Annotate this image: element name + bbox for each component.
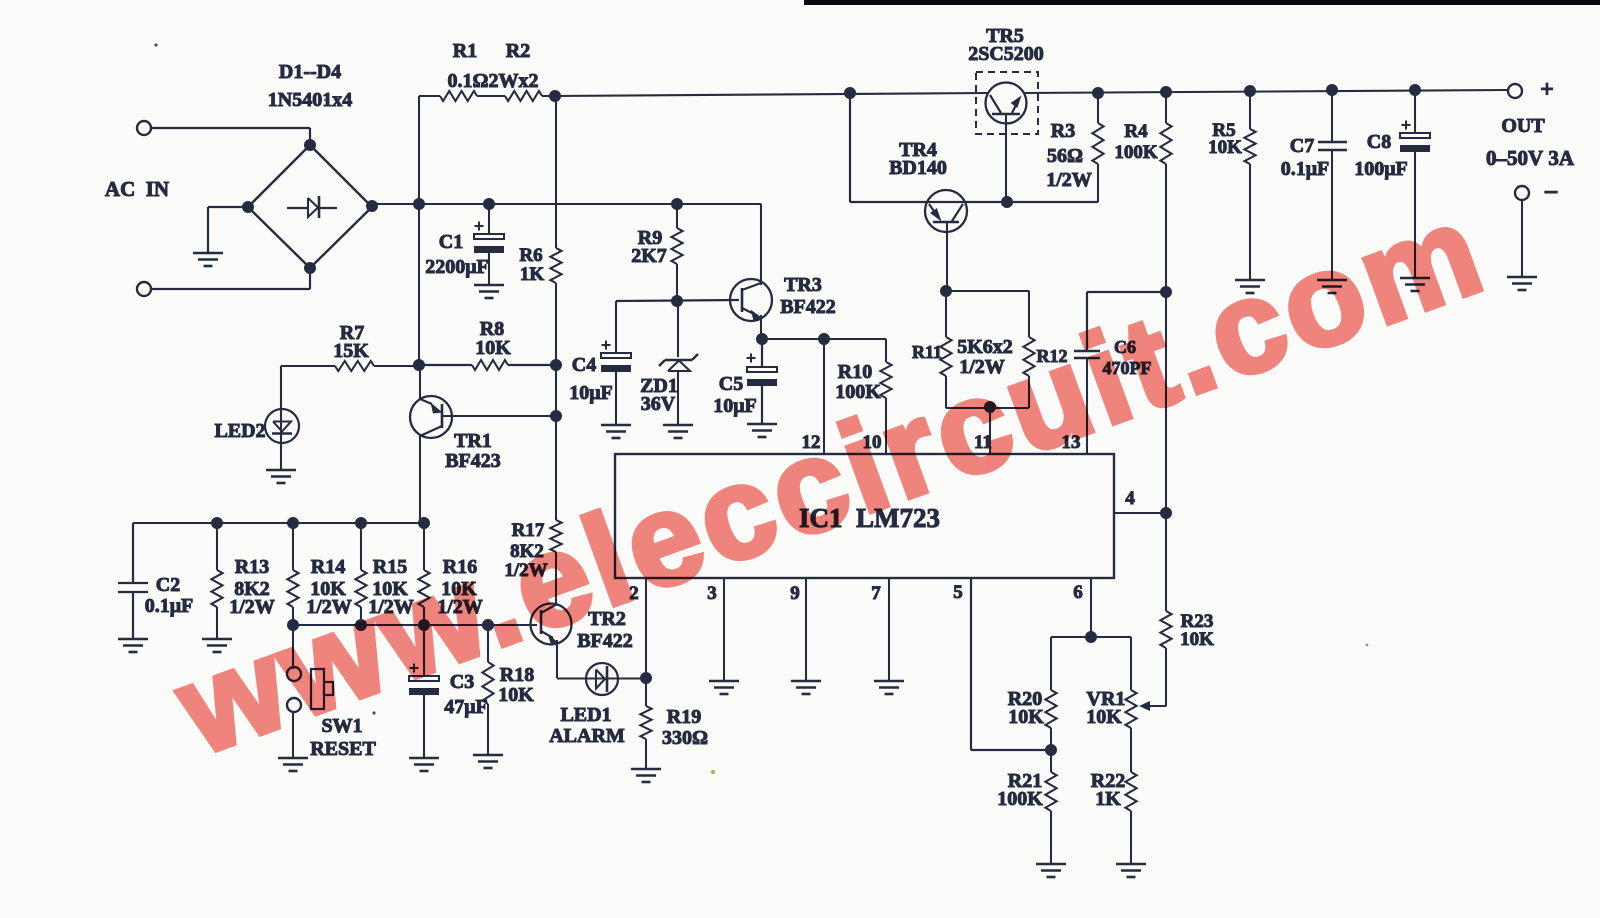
node bridge left <box>242 201 254 213</box>
capacitor C8 <box>1400 90 1430 278</box>
resistor R1 <box>440 91 477 101</box>
wire <box>677 301 679 357</box>
label 0.1ohm 2Wx2 <box>447 70 538 92</box>
resistor R9 <box>671 228 682 264</box>
label TR2 <box>588 608 626 630</box>
label halfW R11 <box>959 356 1005 378</box>
svg-text:7: 7 <box>871 583 881 604</box>
label C3 <box>450 671 474 693</box>
ground <box>601 425 631 438</box>
wire pin 4 <box>1114 512 1166 514</box>
wire <box>151 268 310 289</box>
node rail R4 <box>1160 86 1172 98</box>
node pin4 <box>1160 507 1172 519</box>
label C8 <box>1367 131 1391 153</box>
label VR1 <box>1087 688 1126 710</box>
node TR3 emitter <box>756 333 768 345</box>
node TR5 base junction <box>1001 196 1013 208</box>
switch SW1 <box>287 667 333 712</box>
label pin 11 <box>974 432 992 453</box>
label R10 <box>838 361 872 383</box>
ground <box>474 285 504 298</box>
label halfW R15 <box>368 596 414 618</box>
label 100K R4 <box>1114 142 1158 163</box>
label R13 <box>235 556 269 578</box>
wire <box>615 372 617 425</box>
resistor R16 <box>418 523 429 625</box>
ground <box>1317 280 1347 293</box>
svg-text:C8: C8 <box>1367 131 1391 153</box>
label 2SC5200 <box>968 43 1044 65</box>
svg-text:15K: 15K <box>333 340 369 362</box>
wire <box>281 365 335 367</box>
ground <box>409 758 439 771</box>
wire pin 2 <box>645 578 647 678</box>
label 10K R23 <box>1180 629 1214 650</box>
svg-text:2200μF: 2200μF <box>425 256 489 278</box>
label ZD1 <box>640 375 678 397</box>
label 1N5401x4 <box>268 89 352 111</box>
node rail C8 <box>1409 84 1421 96</box>
node rail C7 <box>1326 84 1338 96</box>
label R23 <box>1181 611 1214 632</box>
ground <box>278 758 308 771</box>
label AC IN <box>105 177 169 201</box>
wire emitter line <box>762 338 886 340</box>
svg-text:1K: 1K <box>520 264 545 285</box>
label 5K6x2 <box>957 336 1013 358</box>
transistor TR1 <box>410 365 452 523</box>
label 15K <box>333 340 369 362</box>
wire vertical left <box>418 96 420 365</box>
svg-text:LED1: LED1 <box>560 704 611 726</box>
op-amp U1 IC1 LM723 box <box>615 454 1114 578</box>
speck <box>1366 644 1369 647</box>
wire rail bridge <box>372 203 761 205</box>
node TR1 base junction <box>550 410 562 422</box>
node pin11 node <box>984 401 996 413</box>
svg-text:BF422: BF422 <box>780 296 836 318</box>
node R2 out <box>549 90 561 102</box>
wire <box>292 625 294 669</box>
label 10K <box>475 337 511 359</box>
label 10K VR1 <box>1086 706 1122 728</box>
label pin 6 <box>1073 582 1083 603</box>
label 10K R20 <box>1008 706 1044 728</box>
VR1 wiper arrow <box>1139 701 1150 711</box>
node bridge right <box>366 200 378 212</box>
node C6 junction <box>1160 286 1172 298</box>
svg-text:R13: R13 <box>235 556 269 578</box>
label pin 4 <box>1125 488 1135 509</box>
svg-text:OUT: OUT <box>1501 115 1545 137</box>
scan artifact bar <box>804 0 1600 5</box>
speck <box>154 43 157 46</box>
label RESET <box>310 738 376 760</box>
wire <box>616 300 739 301</box>
wire pin 11 <box>989 407 991 454</box>
wire <box>477 95 505 97</box>
TR5 dashed outline <box>976 72 1038 134</box>
output terminal minus <box>1515 186 1529 200</box>
label TR4 <box>899 139 937 161</box>
label 10uF C5 <box>713 395 757 417</box>
svg-text:BD140: BD140 <box>889 157 947 179</box>
wire <box>557 677 646 679</box>
svg-text:4: 4 <box>1125 488 1135 509</box>
zener ZD1 <box>659 354 698 371</box>
ground <box>709 681 739 694</box>
svg-text:R11: R11 <box>912 342 942 362</box>
label R11 <box>912 342 942 362</box>
label R8 <box>480 318 504 340</box>
svg-text:10K: 10K <box>1008 706 1044 728</box>
node pin2 node <box>640 672 652 684</box>
node R13 top <box>211 517 223 529</box>
capacitor C3 <box>409 625 439 758</box>
svg-text:R10: R10 <box>838 361 872 383</box>
label 8K2 R17 <box>510 541 544 562</box>
label pin 12 <box>802 432 821 453</box>
label BF422 TR3 <box>780 296 836 318</box>
label pin 2 <box>629 583 639 604</box>
svg-text:+: + <box>1540 77 1554 103</box>
label R15 <box>373 556 407 578</box>
svg-text:100μF: 100μF <box>1354 158 1408 180</box>
svg-text:10K: 10K <box>1086 706 1122 728</box>
node bridge bottom <box>304 262 316 274</box>
label 0.1uF C7 <box>1281 158 1330 180</box>
svg-text:56Ω: 56Ω <box>1047 145 1083 167</box>
svg-text:R14: R14 <box>311 556 345 578</box>
resistor R10 <box>880 339 891 454</box>
label BD140 <box>889 157 947 179</box>
ground <box>193 253 223 266</box>
wire pin 9 <box>805 578 807 681</box>
label 8K2 R13 <box>234 578 270 600</box>
label R5 <box>1212 120 1235 141</box>
speck <box>324 99 327 102</box>
resistor R5 <box>1244 91 1255 280</box>
wire <box>946 290 1029 292</box>
capacitor C6 <box>1074 351 1100 358</box>
capacitor C7 <box>1318 90 1347 280</box>
label 10K R15 <box>372 578 408 600</box>
node R15 bottom <box>355 619 367 631</box>
ground <box>473 755 503 768</box>
resistor R12 <box>1023 291 1034 408</box>
wire sense line <box>293 624 531 626</box>
node R8 out <box>550 359 562 371</box>
svg-text:C5: C5 <box>719 373 743 395</box>
label C2 <box>156 574 180 596</box>
label halfW R17 <box>504 560 547 581</box>
capacitor C4 <box>601 341 631 373</box>
label 10K R18 <box>498 684 534 706</box>
label pin 9 <box>790 583 800 604</box>
wire TR3 emitter <box>760 315 762 339</box>
resistor R18 <box>482 625 493 755</box>
svg-text:TR1: TR1 <box>454 430 492 452</box>
transistor TR4 <box>925 190 967 232</box>
transistor TR2 <box>531 604 572 645</box>
wire <box>280 366 282 408</box>
svg-text:R1: R1 <box>453 40 477 62</box>
ground <box>874 681 904 694</box>
wire <box>1146 705 1166 707</box>
svg-text:C2: C2 <box>156 574 180 596</box>
label 10uF C4 <box>569 382 613 404</box>
svg-text:1/2W: 1/2W <box>1046 169 1092 191</box>
speck <box>372 711 375 714</box>
label 470PF <box>1103 358 1152 378</box>
label halfW R16 <box>437 596 483 618</box>
label IC1 LM723 <box>799 503 940 533</box>
ground <box>1235 280 1265 293</box>
wire <box>151 128 310 145</box>
svg-text:5: 5 <box>953 582 963 603</box>
svg-text:R2: R2 <box>506 40 530 62</box>
node rail R3 <box>1092 87 1104 99</box>
svg-text:10μF: 10μF <box>713 395 757 417</box>
svg-text:2SC5200: 2SC5200 <box>968 43 1044 65</box>
output terminal plus <box>1508 84 1522 98</box>
resistor R4 <box>1160 92 1171 292</box>
label BF422 TR2 <box>577 630 633 652</box>
wire <box>542 95 555 97</box>
ground <box>202 639 232 652</box>
svg-text:R4: R4 <box>1124 121 1148 142</box>
wire <box>761 339 763 424</box>
label LED1 <box>560 704 611 726</box>
node bridge top <box>304 139 316 151</box>
label C5 <box>719 373 743 395</box>
svg-text:C4: C4 <box>572 354 596 376</box>
label 2200uF <box>425 256 489 278</box>
label C7 <box>1290 135 1314 157</box>
transistor TR3 <box>730 279 772 321</box>
resistor R21 <box>1045 750 1056 864</box>
svg-text:10K: 10K <box>475 337 511 359</box>
svg-text:C7: C7 <box>1290 135 1314 157</box>
resistor R17 <box>550 520 561 606</box>
label ALARM <box>549 725 625 747</box>
svg-text:2K7: 2K7 <box>631 245 667 267</box>
label pin 5 <box>953 582 963 603</box>
capacitor C5 <box>747 354 778 387</box>
wire <box>946 407 1029 409</box>
svg-text:LED2: LED2 <box>214 420 265 442</box>
wire <box>1087 292 1166 351</box>
label R19 <box>667 706 701 728</box>
label R1 <box>453 40 477 62</box>
capacitor C2 <box>118 523 148 639</box>
svg-text:6: 6 <box>1073 582 1083 603</box>
svg-text:–: – <box>1544 178 1558 204</box>
label plus <box>1540 77 1554 103</box>
svg-text:0.1μF: 0.1μF <box>145 595 194 617</box>
wire <box>615 301 617 353</box>
ground <box>747 424 777 437</box>
wire TR3 collector <box>760 204 762 285</box>
wire <box>676 204 678 228</box>
label C4 <box>572 354 596 376</box>
wire bracket <box>1051 636 1131 638</box>
ground <box>1507 277 1537 290</box>
label halfW R3 <box>1046 169 1092 191</box>
watermark www.eleccircuit.com <box>162 182 1500 775</box>
resistor R22 <box>1125 772 1136 864</box>
node TR4 base node <box>940 285 952 297</box>
label R17 <box>512 520 545 541</box>
wire pin 12 <box>823 339 825 454</box>
svg-text:10K: 10K <box>1208 137 1242 158</box>
label minus <box>1544 178 1558 204</box>
node R7 junction <box>413 359 425 371</box>
label 10K R14 <box>310 578 346 600</box>
label 100uF C8 <box>1354 158 1408 180</box>
wire <box>1521 200 1523 277</box>
resistor R7 <box>335 361 374 371</box>
resistor R3 <box>1092 93 1103 202</box>
transistor TR5 <box>986 83 1027 124</box>
svg-text:ALARM: ALARM <box>549 725 625 747</box>
AC input terminal top <box>137 121 151 135</box>
label halfW R13 <box>229 596 275 618</box>
resistor R11 <box>940 291 951 408</box>
LED2 <box>265 366 299 470</box>
wire TR2 emitter <box>556 640 558 678</box>
label TR5 <box>986 25 1024 47</box>
resistor R19 <box>640 678 651 769</box>
svg-text:R19: R19 <box>667 706 701 728</box>
ground <box>266 470 296 483</box>
capacitor C1 <box>474 222 504 254</box>
svg-text:0–50V 3A: 0–50V 3A <box>1486 146 1575 170</box>
label 0-50V 3A <box>1486 146 1575 170</box>
wire rail top left <box>555 93 988 96</box>
svg-text:C1: C1 <box>439 231 463 253</box>
ground <box>1036 864 1066 877</box>
label pin 7 <box>871 583 881 604</box>
wire <box>1165 292 1167 513</box>
node C <box>671 198 683 210</box>
label 56ohm <box>1047 145 1083 167</box>
wire pin 5 <box>971 578 1051 750</box>
wire rail top right <box>1024 90 1508 93</box>
label TR3 <box>784 274 822 296</box>
label 10K R5 <box>1208 137 1242 158</box>
wire <box>555 283 557 520</box>
AC input terminal bottom <box>137 282 151 296</box>
svg-text:R3: R3 <box>1051 120 1075 142</box>
node R18 top <box>482 619 494 631</box>
wire pin 7 <box>888 578 890 681</box>
wire <box>488 253 490 285</box>
label R20 <box>1008 688 1042 710</box>
svg-text:330Ω: 330Ω <box>662 727 708 749</box>
label pin 10 <box>863 432 882 453</box>
node R16 top <box>418 517 430 529</box>
label R3 <box>1051 120 1075 142</box>
label 1K R22 <box>1095 788 1121 810</box>
wire <box>374 365 419 367</box>
svg-text:0.1μF: 0.1μF <box>1281 158 1330 180</box>
resistor R2 <box>505 91 542 101</box>
node rail R5 <box>1244 85 1256 97</box>
label 36V <box>641 393 676 415</box>
resistor R14 <box>287 523 298 625</box>
wire <box>555 96 557 248</box>
svg-text:100K: 100K <box>1114 142 1158 163</box>
label C1 <box>439 231 463 253</box>
wire pin 13 <box>1086 358 1088 454</box>
wire pin 6 <box>1090 578 1092 637</box>
speck <box>711 770 715 774</box>
resistor R20 <box>1045 637 1056 750</box>
svg-text:10K: 10K <box>498 684 534 706</box>
label R22 <box>1091 770 1125 792</box>
wire <box>292 712 294 758</box>
label pin 13 <box>1062 432 1081 453</box>
resistor R6 <box>550 248 561 283</box>
label TR1 <box>454 430 492 452</box>
svg-text:AC IN: AC IN <box>105 177 169 201</box>
node R14 top <box>287 517 299 529</box>
wire <box>419 364 556 366</box>
label R9 <box>638 227 662 249</box>
node R14 bottom <box>287 619 299 631</box>
node B <box>483 198 495 210</box>
svg-text:D1--D4: D1--D4 <box>279 61 341 83</box>
label 10K R16 <box>441 578 477 600</box>
label 0.1uF C2 <box>145 595 194 617</box>
label 2K7 <box>631 245 667 267</box>
label R18 <box>500 664 534 686</box>
label R12 <box>1037 346 1068 366</box>
ground <box>631 769 661 782</box>
node rail TR4 <box>844 87 856 99</box>
svg-text:100K: 100K <box>997 788 1043 810</box>
resistor R15 <box>355 523 366 625</box>
label R6 <box>519 245 542 266</box>
svg-text:9: 9 <box>790 583 800 604</box>
node pin6 node <box>1085 631 1097 643</box>
label pin 3 <box>707 583 717 604</box>
node R15 top <box>355 517 367 529</box>
wire TR1 base <box>442 415 556 417</box>
label LED2 <box>214 420 265 442</box>
wire TR2 base <box>488 624 537 626</box>
wire <box>850 93 1098 202</box>
wire <box>419 95 440 97</box>
wire pin 3 <box>723 578 725 681</box>
label R16 <box>443 556 477 578</box>
svg-text:10μF: 10μF <box>569 382 613 404</box>
label 100K R21 <box>997 788 1043 810</box>
ground <box>663 425 693 438</box>
node pin12 <box>818 333 830 345</box>
wire <box>208 207 248 253</box>
svg-text:1K: 1K <box>1095 788 1121 810</box>
node R20 R21 <box>1045 744 1057 756</box>
resistor R23 <box>1160 513 1171 706</box>
wire top line <box>133 522 424 524</box>
svg-text:36V: 36V <box>641 393 676 415</box>
wire <box>677 372 679 425</box>
label 47uF <box>444 696 488 718</box>
ground <box>1400 278 1430 291</box>
